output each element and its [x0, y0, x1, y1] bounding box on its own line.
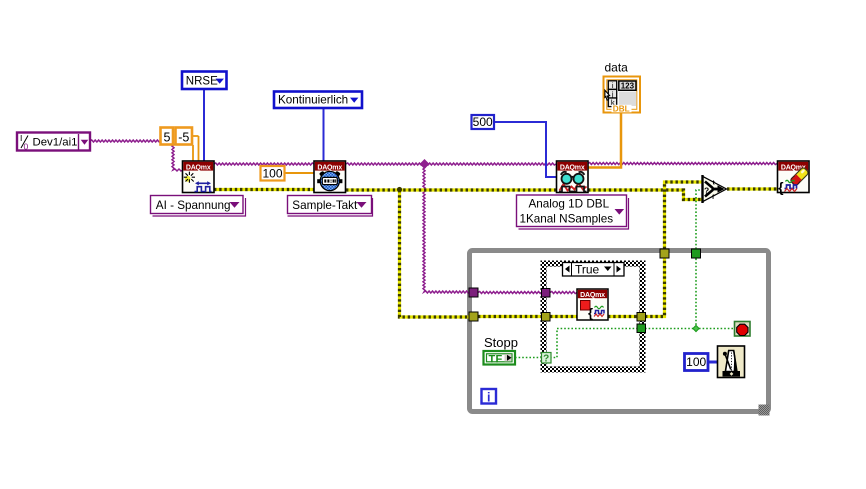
node: error wire junction: [397, 187, 402, 192]
I/O constant Dev1/ai1: [17, 133, 90, 152]
svg-text:DBL: DBL: [613, 105, 630, 114]
mouse cursor: [605, 90, 610, 100]
svg-text:NRSE: NRSE: [186, 75, 218, 87]
wire: task inside case to read2: [550, 292, 577, 294]
svg-text:I: I: [20, 133, 22, 143]
svg-text:Analog 1D DBL: Analog 1D DBL: [529, 197, 610, 210]
constant 100 (wait ms): [685, 354, 709, 371]
VI icon: DAQmx Clear Task: [778, 161, 810, 195]
wire: 500 to read VI: [494, 122, 556, 177]
tunnel: loop error out top: [660, 249, 669, 258]
boolean control Stopp (TF): [484, 335, 518, 365]
tunnel: loop error in: [469, 312, 478, 321]
svg-text:DAQmx: DAQmx: [560, 164, 585, 171]
constant -5: [176, 128, 193, 145]
svg-text:DAQmx: DAQmx: [317, 164, 342, 171]
svg-text:100: 100: [262, 166, 282, 180]
select node: [703, 175, 727, 203]
VI icon: DAQmx Timing: [314, 161, 346, 193]
svg-text:0: 0: [24, 142, 29, 152]
wire: 100 to timing VI: [285, 172, 314, 174]
svg-text:1Kanal NSamples: 1Kanal NSamples: [520, 212, 614, 225]
svg-text:AI - Spannung: AI - Spannung: [156, 199, 231, 212]
VI icon: DAQmx Read: [557, 161, 589, 193]
svg-text:DAQmx: DAQmx: [186, 164, 211, 171]
tunnel: loop boolean out top: [692, 249, 701, 258]
case structure: [544, 264, 643, 370]
indicator data (1D DBL array): [604, 61, 641, 114]
svg-text:i: i: [487, 390, 490, 404]
tunnel: case error in: [542, 313, 551, 322]
wire: boolean Stopp to case selector: [515, 357, 542, 359]
svg-text:True: True: [575, 263, 600, 277]
wire: task read to clear: [588, 163, 777, 165]
wire: Kontinuierlich to timing VI: [323, 108, 325, 161]
wire: data array to read VI: [588, 113, 621, 168]
wire: boolean inside case: [550, 329, 637, 358]
tunnel: loop task in: [469, 288, 478, 297]
loop condition terminal (stop sign): [735, 322, 751, 337]
node: boolean junction: [693, 325, 699, 331]
wire: task create to timing: [214, 163, 314, 165]
svg-text:Kontinuierlich: Kontinuierlich: [278, 94, 348, 107]
svg-text:5: 5: [164, 131, 171, 145]
wire: error branch into loop: [400, 190, 471, 317]
wire: error inside loop to case: [478, 315, 542, 318]
svg-text:data: data: [605, 61, 629, 75]
svg-text:500: 500: [473, 115, 493, 129]
svg-text:Sample-Takt: Sample-Takt: [292, 199, 358, 212]
wire: 100 to wait node: [708, 361, 717, 364]
wire: task branch into loop: [423, 164, 470, 293]
svg-text:TF: TF: [489, 353, 503, 365]
wire: NRSE to create VI: [203, 90, 205, 161]
wire: boolean case to stop terminal: [645, 328, 734, 330]
VI icon: DAQmx Read (inside case): [577, 289, 608, 321]
label Sample-Takt: [288, 196, 373, 217]
constant 500: [472, 115, 495, 129]
wire: error read2 to case tunnel: [608, 315, 637, 318]
svg-text:?: ?: [704, 186, 709, 196]
case selector label True: [563, 263, 625, 277]
enum Kontinuierlich: [274, 92, 362, 109]
wire: boolean up through loop to select s input: [696, 190, 703, 329]
wait until next ms multiple node: [718, 346, 745, 378]
case selector ? terminal: [542, 353, 552, 365]
svg-text:100: 100: [686, 355, 706, 369]
iteration terminal i: [482, 389, 497, 404]
svg-text:Stopp: Stopp: [484, 335, 518, 350]
wire: task inside loop: [478, 292, 542, 294]
VI icon: DAQmx Create Virtual Channel: [183, 161, 215, 193]
wire: 5 and -5 to create VI: [192, 136, 199, 161]
tunnel: case task in: [542, 289, 551, 298]
svg-text:DAQmx: DAQmx: [580, 292, 605, 299]
tunnel: case boolean out: [637, 324, 646, 333]
wire: error read to select f input: [588, 190, 703, 200]
wire: error select to clear VI: [727, 187, 777, 190]
wire: error loop tunnel to select t input: [665, 182, 704, 249]
constant 100 (timing rate): [261, 166, 285, 181]
constant 5: [161, 128, 174, 145]
wire: task timing to read: [346, 163, 556, 165]
while loop: [470, 251, 770, 416]
wire: error create to timing: [214, 188, 314, 191]
wire: error inside case to read2: [550, 315, 577, 318]
svg-text:{: {: [778, 180, 783, 195]
tunnel: case error out: [637, 313, 646, 322]
wire: DAQmx task Dev1/ai1 to create VI: [90, 140, 183, 171]
svg-text:123: 123: [621, 82, 635, 91]
svg-text:Dev1/ai1: Dev1/ai1: [33, 137, 78, 149]
label AI - Spannung: [151, 196, 246, 217]
enum NRSE: [182, 72, 227, 90]
label Analog 1D DBL 1Kanal NSamples: [517, 195, 629, 229]
svg-text:-5: -5: [178, 131, 189, 145]
node: task wire junction: [420, 159, 430, 169]
wire: error timing to read: [346, 188, 556, 191]
svg-text:?: ?: [543, 354, 549, 365]
wire: error case tunnel up to loop tunnel: [645, 258, 665, 317]
svg-text:{: {: [588, 306, 593, 321]
